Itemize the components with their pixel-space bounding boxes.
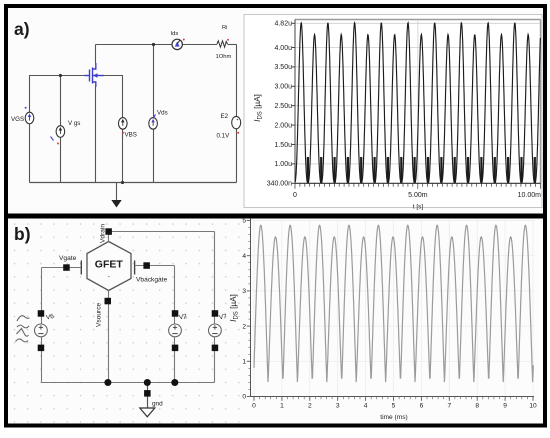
plot b x axis: [251, 396, 535, 398]
panel b background: [8, 219, 543, 425]
svg-text:1Ohm: 1Ohm: [216, 54, 232, 60]
svg-text:0.1V: 0.1V: [217, 133, 231, 140]
wire bottom horizontal b: [42, 382, 215, 384]
svg-text:1: 1: [242, 359, 246, 366]
svg-text:Vdrain: Vdrain: [100, 224, 107, 243]
svg-text:3.00u: 3.00u: [274, 84, 292, 91]
resistor Ri: [217, 41, 228, 47]
svg-text:0: 0: [293, 192, 297, 199]
svg-text:8: 8: [475, 403, 479, 410]
svg-text:4.00u: 4.00u: [274, 45, 292, 52]
wire Vds branch: [153, 45, 155, 183]
ground gnd: [140, 408, 155, 417]
svg-text:5: 5: [392, 403, 396, 410]
wire top horizontal: [96, 44, 218, 46]
svg-text:3.50u: 3.50u: [274, 64, 292, 71]
voltage source V2: [169, 324, 182, 337]
svg-text:-: -: [108, 275, 110, 281]
junction V2/bottom: [171, 379, 178, 386]
svg-text:1.00u: 1.00u: [274, 161, 292, 168]
svg-text:5.00m: 5.00m: [408, 192, 428, 199]
svg-text:time (ms): time (ms): [380, 414, 407, 421]
wire VGS branch: [29, 75, 31, 183]
wire V7 branch: [214, 232, 216, 383]
terminal gnd: [144, 390, 151, 397]
svg-text:GFET: GFET: [95, 259, 124, 271]
transistor arrow: [93, 73, 98, 77]
svg-text:V gs: V gs: [68, 120, 80, 127]
ammeter Ids: [172, 39, 182, 49]
wire ground stub: [116, 183, 118, 201]
svg-text:0: 0: [242, 394, 246, 401]
svg-text:E2: E2: [221, 113, 229, 120]
terminal V6 bottom: [38, 345, 45, 352]
wire VBS branch: [122, 76, 124, 183]
svg-text:Vgate: Vgate: [59, 255, 77, 262]
svg-text:4.82u: 4.82u: [274, 21, 292, 28]
svg-text:2.00u: 2.00u: [274, 122, 292, 129]
wire resistor to corner: [228, 44, 237, 46]
svg-text:Vbackgate: Vbackgate: [136, 277, 167, 284]
junction top/Vds: [152, 43, 155, 46]
wire drain top horizontal: [109, 231, 215, 233]
red mark Ids: [183, 39, 185, 41]
wire drain vertical: [95, 45, 97, 64]
wire gate horizontal: [30, 75, 85, 77]
plot a y labels: [267, 21, 292, 188]
wire drain stub: [108, 230, 110, 242]
svg-text:Ids: Ids: [171, 31, 179, 37]
red mark E2: [237, 132, 239, 134]
voltage source Vgs: [56, 126, 65, 138]
svg-text:10.00m: 10.00m: [518, 192, 542, 199]
terminal V2 bottom: [172, 345, 179, 352]
plot a gridlines: [296, 20, 541, 183]
gate bar: [80, 261, 82, 275]
plot a valley bars: [308, 157, 535, 183]
terminal V7 top: [212, 310, 219, 317]
plot a frame: [295, 20, 541, 184]
plot a window: [244, 15, 542, 208]
junction gate/Vgs: [59, 74, 62, 77]
voltage source VGS: [25, 112, 34, 124]
wire bulk horizontal: [104, 75, 123, 77]
wire E2 branch: [236, 45, 238, 183]
svg-text:Vds: Vds: [157, 110, 168, 117]
svg-text:2: 2: [242, 323, 246, 330]
svg-text:1.50u: 1.50u: [274, 142, 292, 149]
svg-text:340.00n: 340.00n: [267, 181, 292, 188]
transistor M1: [85, 63, 105, 87]
blue mark Vgs: [51, 137, 54, 141]
plot b y axis: [250, 219, 252, 397]
terminal gate: [63, 264, 69, 271]
junction bottom/VBS: [121, 181, 124, 184]
blue mark Vds: [153, 115, 156, 119]
voltage source Vds: [149, 118, 158, 130]
junction source/bottom: [104, 379, 111, 386]
svg-text:1: 1: [280, 403, 284, 410]
svg-text:3: 3: [242, 288, 246, 295]
panel a background: [8, 8, 543, 214]
panel b dot grid: [9, 219, 249, 423]
svg-text:a): a): [14, 19, 30, 39]
svg-text:10: 10: [529, 403, 537, 410]
wire backgate horizontal: [135, 265, 175, 267]
svg-text:t [s]: t [s]: [413, 204, 424, 211]
wire source vertical: [95, 86, 97, 183]
plot b x labels: [252, 403, 537, 410]
plot b gridlines: [251, 221, 534, 397]
svg-text:Ri: Ri: [222, 25, 227, 31]
svg-text:b): b): [14, 224, 31, 244]
plot a y tick marks: [292, 23, 295, 183]
terminal V2 top: [172, 310, 179, 317]
red mark Ri: [227, 39, 229, 41]
terminal backgate: [143, 262, 150, 269]
voltage source E2: [232, 116, 241, 128]
plot a axes: [294, 20, 296, 184]
wire gnd stub: [147, 383, 149, 409]
wire gate horizontal: [42, 267, 81, 269]
terminal source: [105, 298, 112, 305]
svg-text:Vsource: Vsource: [96, 302, 103, 327]
voltage source VBS: [119, 118, 128, 130]
wire bottom horizontal: [30, 182, 237, 184]
svg-text:6: 6: [420, 403, 424, 410]
svg-text:VGS: VGS: [11, 116, 24, 123]
svg-text:VBS: VBS: [125, 132, 137, 139]
svg-text:2.50u: 2.50u: [274, 103, 292, 110]
svg-text:5: 5: [242, 218, 246, 225]
plot b y labels: [242, 218, 246, 401]
plot b tick marks: [247, 221, 533, 401]
divider bar: [4, 214, 547, 219]
backgate bar: [134, 261, 136, 275]
svg-text:9: 9: [503, 403, 507, 410]
svg-text:0: 0: [252, 403, 256, 410]
terminal V7 bottom: [212, 345, 219, 352]
svg-text:3: 3: [336, 403, 340, 410]
plot b waveform: [254, 225, 533, 382]
red mark Vgs: [57, 143, 59, 145]
svg-text:7: 7: [447, 403, 451, 410]
plot a waveform: [295, 23, 540, 183]
svg-text:4: 4: [364, 403, 368, 410]
wire V2 branch: [174, 266, 176, 383]
AC squiggles: [16, 316, 30, 342]
wire V6 branch: [41, 268, 43, 383]
svg-text:gnd: gnd: [152, 401, 163, 408]
GFET hexagon U1: [87, 242, 131, 291]
svg-text:2: 2: [308, 403, 312, 410]
terminal V6 top: [38, 310, 45, 317]
svg-text:4: 4: [242, 253, 246, 260]
voltage source V6: [35, 324, 48, 337]
junction gnd/bottom: [144, 379, 151, 386]
terminal drain: [105, 228, 112, 235]
ground: [111, 200, 121, 208]
wire source vertical: [108, 291, 110, 383]
blue mark VGS: [25, 107, 27, 109]
voltage source V7: [209, 324, 222, 337]
wire Vgs branch: [60, 76, 62, 183]
plot a x tick marks: [295, 183, 541, 189]
red mark VBS: [122, 132, 124, 134]
